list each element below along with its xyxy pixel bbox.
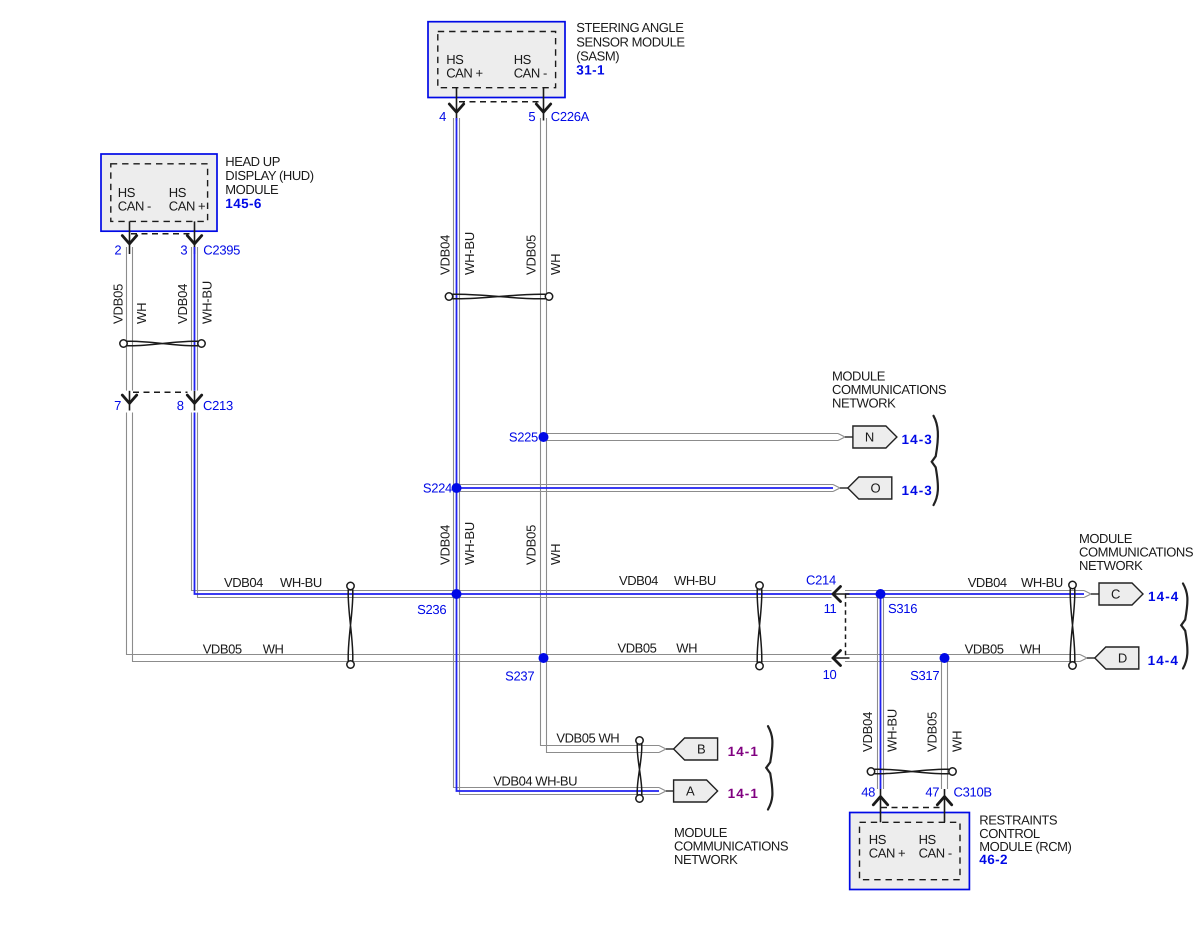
splice S224 [452, 483, 462, 493]
svg-text:CAN +: CAN + [446, 66, 482, 81]
svg-text:7: 7 [114, 398, 121, 413]
svg-text:A: A [686, 784, 695, 799]
svg-text:10: 10 [823, 667, 837, 682]
svg-text:14-1: 14-1 [728, 744, 759, 759]
svg-text:S316: S316 [888, 601, 917, 616]
wire VDB05 WH from splice S225 right to connector N [544, 433, 839, 435]
svg-text:2: 2 [114, 243, 121, 258]
svg-text:4: 4 [439, 109, 446, 124]
splice S316 [876, 589, 886, 599]
off-page connector B to 14-1 [674, 738, 718, 760]
svg-text:S224: S224 [423, 481, 452, 496]
svg-text:VDB04: VDB04 [619, 573, 658, 588]
wire VDB05 WH from S317 right to connector D [945, 654, 1081, 656]
splice S317 [940, 653, 950, 663]
svg-text:NETWORK: NETWORK [832, 396, 896, 411]
svg-text:WH: WH [548, 544, 563, 565]
wire VDB04 WH-BU from splice S224 right to connector O [457, 484, 834, 486]
pin 7 stem of C213 [129, 391, 131, 411]
svg-text:VDB04: VDB04 [968, 575, 1007, 590]
svg-text:VDB04: VDB04 [175, 284, 190, 324]
wire VDB05 WH from C214 to splice S317 [845, 654, 945, 656]
wire VDB04 WH-BU from S316 right to connector C [881, 590, 1085, 592]
pin 3 stem of C2395 [194, 221, 196, 254]
twisted-pair symbol on left horizontal wire pair [347, 582, 354, 668]
svg-text:STEERING ANGLE: STEERING ANGLE [576, 20, 684, 35]
connector C2395 dashed line [131, 233, 192, 235]
connector C213 dashed line [133, 391, 188, 393]
svg-text:VDB05: VDB05 [523, 235, 538, 275]
wire VDB04 WH-BU from S316 down to RCM pin 48 [877, 594, 879, 789]
twisted-pair symbol on RCM wire pair [867, 768, 956, 775]
wire VDB04 WH-BU from SASM pin 4 down through S224 to S236 [453, 118, 455, 594]
svg-text:48: 48 [861, 784, 875, 799]
off-page connector O to 14-3 [848, 477, 892, 499]
svg-text:HEAD UP: HEAD UP [225, 154, 280, 169]
svg-text:NETWORK: NETWORK [674, 852, 738, 867]
svg-text:VDB05: VDB05 [965, 642, 1004, 657]
pin 47 stem of C310B [944, 789, 946, 822]
pin 48 stem of C310B [880, 789, 882, 822]
off-page connector N to 14-3 [853, 426, 897, 448]
svg-text:CAN +: CAN + [169, 199, 205, 214]
module U2: HEAD UP DISPLAY (HUD) MODULE box [101, 154, 217, 231]
svg-text:WH: WH [676, 641, 697, 656]
svg-text:VDB05: VDB05 [925, 712, 940, 752]
wire VDB05 WH from S237 down then right to connector B [541, 658, 660, 746]
svg-text:VDB04: VDB04 [438, 525, 453, 565]
svg-text:S237: S237 [505, 669, 534, 684]
wire VDB05 WH from SASM pin 5 down through S225 to S237 [540, 118, 542, 658]
svg-text:VDB05: VDB05 [203, 642, 242, 657]
svg-text:WH-BU: WH-BU [200, 281, 215, 324]
pin 3 arrow of C2395 [187, 236, 201, 244]
svg-text:31-1: 31-1 [576, 63, 605, 78]
pin 10 arrow of C214 [832, 657, 850, 659]
svg-text:WH-BU: WH-BU [280, 575, 322, 590]
pin 8 stem of C213 [194, 391, 196, 411]
wire VDB05 WH from S237 right to C214 pin 10 [544, 654, 832, 656]
svg-text:VDB04: VDB04 [438, 235, 453, 275]
svg-text:C214: C214 [806, 573, 836, 588]
pin 2 arrow of C2395 [122, 236, 136, 244]
svg-text:WH-BU: WH-BU [462, 232, 477, 275]
svg-text:WH-BU: WH-BU [674, 573, 716, 588]
connector C310B dashed line [881, 807, 944, 809]
twisted-pair symbol on middle horizontal wire pair [756, 582, 763, 670]
twisted-pair symbol on C/D wire pair [1069, 581, 1076, 669]
connector C226A dashed line [459, 101, 542, 103]
pin 4 arrow of C226A [449, 104, 463, 112]
svg-text:3: 3 [180, 243, 187, 258]
wire VDB04 WH-BU from C213 down then right to splice S236 [192, 413, 457, 591]
svg-text:WH: WH [263, 642, 284, 657]
svg-text:VDB05: VDB05 [111, 284, 126, 324]
pin 48 arrow of C310B [873, 797, 887, 805]
off-page connector A to 14-1 [674, 780, 718, 802]
svg-text:14-3: 14-3 [902, 432, 933, 447]
svg-text:S236: S236 [417, 602, 446, 617]
wire VDB04 WH-BU from S236 down then right to connector A [454, 594, 660, 788]
svg-text:D: D [1118, 651, 1127, 666]
svg-text:WH: WH [134, 303, 149, 324]
wire VDB04 WH-BU from HUD pin 3 down to C213 [191, 247, 193, 391]
svg-text:VDB04 WH-BU: VDB04 WH-BU [493, 774, 577, 789]
svg-text:(SASM): (SASM) [576, 48, 619, 63]
svg-text:5: 5 [528, 109, 535, 124]
wire VDB04 WH-BU from S236 right to C214 pin 11 [457, 590, 832, 592]
svg-text:WH-BU: WH-BU [1021, 575, 1063, 590]
wire VDB05 WH from C213 down then right to splice S237 [127, 413, 544, 655]
pin 4 stem of C226A [456, 87, 458, 120]
pin 5 arrow of C226A [536, 104, 550, 112]
svg-text:S225: S225 [509, 430, 538, 445]
svg-text:8: 8 [177, 398, 184, 413]
svg-text:N: N [865, 430, 874, 445]
twisted-pair symbol on HUD wire pair [120, 340, 205, 347]
module U1: STEERING ANGLE SENSOR MODULE (SASM) box [428, 22, 565, 98]
brace for A and B [766, 726, 772, 809]
svg-text:VDB05 WH: VDB05 WH [556, 731, 619, 746]
twisted-pair symbol on SASM wire pair [445, 293, 552, 300]
svg-text:S317: S317 [910, 668, 939, 683]
svg-text:WH: WH [950, 731, 965, 752]
svg-text:O: O [870, 481, 880, 496]
svg-text:CAN +: CAN + [869, 845, 905, 860]
svg-text:VDB05: VDB05 [523, 525, 538, 565]
svg-text:C: C [1111, 587, 1120, 602]
twisted-pair symbol on A/B wire pair [636, 737, 643, 802]
wire VDB05 WH from HUD pin 2 down to C213 [126, 247, 128, 391]
svg-text:VDB04: VDB04 [860, 712, 875, 752]
splice S237 [539, 653, 549, 663]
svg-text:CAN -: CAN - [118, 199, 151, 214]
svg-text:CAN -: CAN - [514, 66, 547, 81]
svg-text:145-6: 145-6 [225, 196, 262, 211]
svg-text:11: 11 [824, 601, 837, 616]
svg-text:14-4: 14-4 [1148, 653, 1179, 668]
pin 2 stem of C2395 [129, 221, 131, 254]
pin 47 arrow of C310B [937, 797, 951, 805]
pin 8 arrow of C213 [187, 395, 201, 403]
off-page connector D to 14-4 [1095, 647, 1139, 669]
svg-text:14-4: 14-4 [1148, 589, 1179, 604]
pin 5 stem of C226A [543, 87, 545, 120]
svg-text:VDB04: VDB04 [224, 575, 263, 590]
svg-text:47: 47 [925, 784, 939, 799]
svg-text:46-2: 46-2 [979, 852, 1008, 867]
brace for C and D [1181, 584, 1187, 669]
svg-text:C226A: C226A [551, 109, 590, 124]
wire VDB04 WH-BU from C214 to splice S316 [845, 590, 881, 592]
svg-text:SENSOR MODULE: SENSOR MODULE [576, 34, 685, 49]
svg-text:C310B: C310B [954, 784, 992, 799]
svg-text:14-1: 14-1 [728, 786, 759, 801]
brace for N and O [932, 416, 938, 505]
off-page connector C to 14-4 [1099, 583, 1143, 605]
svg-text:WH: WH [548, 254, 563, 275]
connector C214 dashed line [845, 594, 847, 658]
svg-text:VDB05: VDB05 [618, 641, 657, 656]
svg-text:MODULE: MODULE [225, 182, 279, 197]
wire VDB05 WH from S317 down to RCM pin 47 [941, 658, 943, 789]
pin 11 arrow of C214 [832, 593, 850, 595]
svg-text:C213: C213 [203, 398, 233, 413]
svg-text:WH: WH [1020, 642, 1041, 657]
splice S225 [539, 432, 549, 442]
svg-text:WH-BU: WH-BU [884, 709, 899, 752]
svg-text:NETWORK: NETWORK [1079, 558, 1143, 573]
svg-text:14-3: 14-3 [902, 483, 933, 498]
svg-text:C2395: C2395 [203, 243, 240, 258]
module U3: RESTRAINTS CONTROL MODULE (RCM) box [850, 813, 970, 890]
svg-text:CAN -: CAN - [919, 845, 952, 860]
svg-text:DISPLAY (HUD): DISPLAY (HUD) [225, 168, 313, 183]
splice S236 [452, 589, 462, 599]
svg-text:B: B [697, 742, 705, 757]
svg-text:WH-BU: WH-BU [462, 522, 477, 565]
pin 7 arrow of C213 [122, 395, 136, 403]
